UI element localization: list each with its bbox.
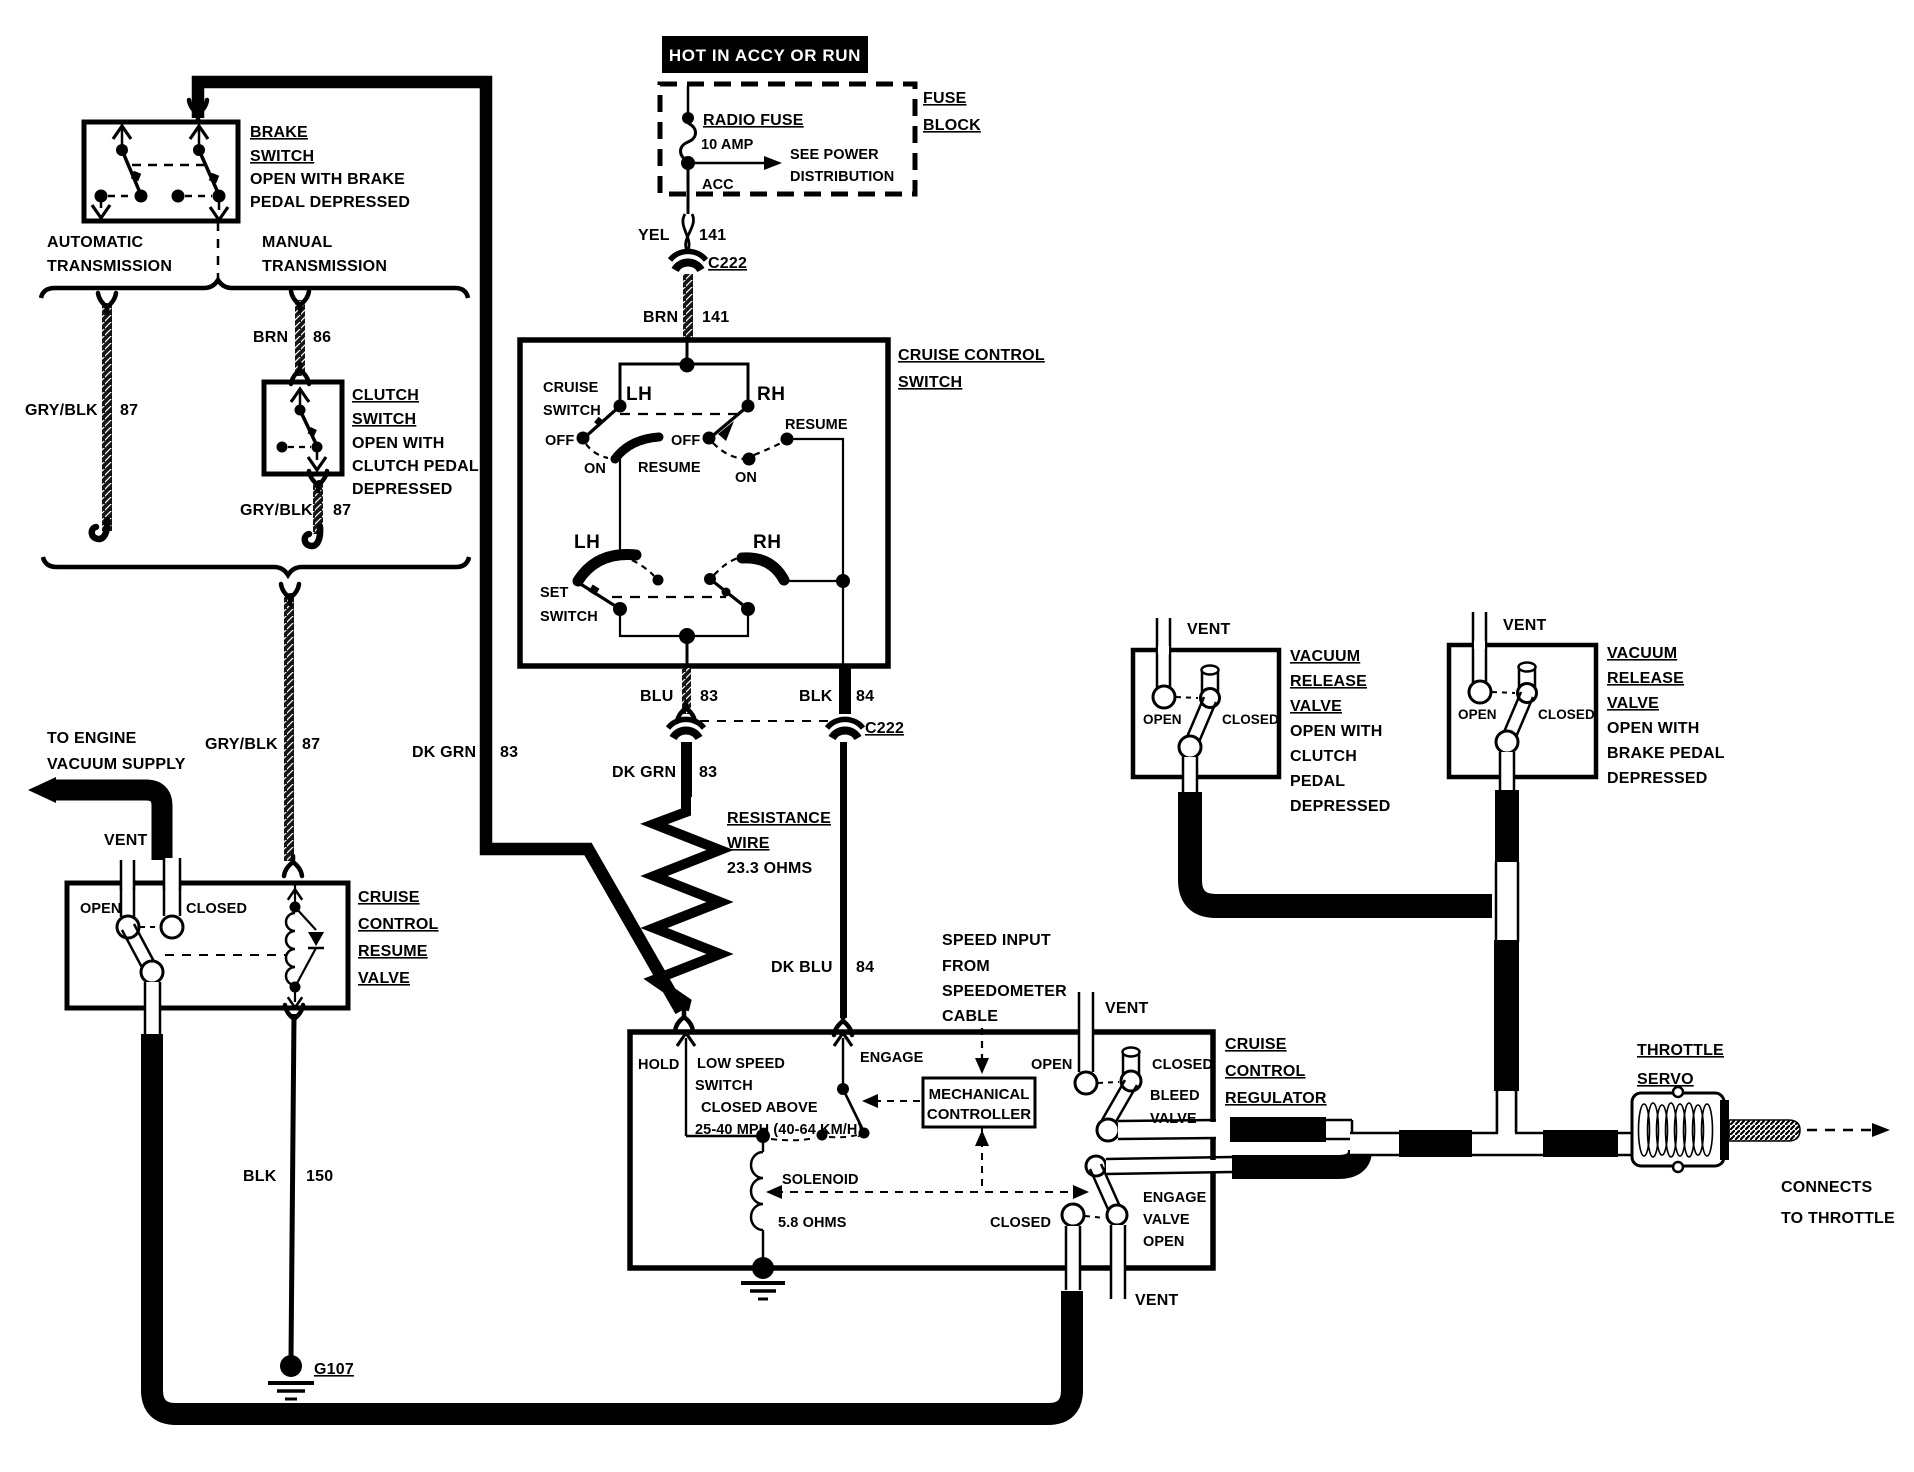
svg-text:SET: SET: [540, 585, 569, 601]
wire ACC down: [687, 163, 690, 214]
svg-text:GRY/BLK: GRY/BLK: [25, 402, 98, 419]
brake switch right pole movable contact dot: [193, 144, 205, 156]
svg-text:SPEEDOMETER: SPEEDOMETER: [942, 983, 1067, 1000]
hose right VRV black segment 2 (down to servo line): [1494, 940, 1519, 1091]
svg-text:MECHANICAL: MECHANICAL: [929, 1086, 1030, 1103]
solenoid wire: [762, 1136, 764, 1152]
svg-text:BLK: BLK: [799, 688, 833, 705]
svg-text:LOW SPEED: LOW SPEED: [697, 1056, 785, 1072]
dashed valve link: [140, 926, 160, 928]
right VRV vent tube: [1472, 612, 1475, 683]
svg-text:AUTOMATIC: AUTOMATIC: [47, 234, 144, 251]
ground (regulator): [752, 1257, 774, 1279]
tube to tee junction: [1498, 1091, 1515, 1152]
left VRV flap cylinder: [1201, 671, 1204, 692]
left VRV pivot: [1179, 736, 1201, 758]
svg-text:141: 141: [702, 309, 729, 326]
svg-text:OPEN: OPEN: [80, 901, 122, 917]
brake switch right pole dashed link: [185, 195, 212, 198]
svg-text:HOLD: HOLD: [638, 1057, 679, 1073]
LH set blade: [579, 583, 620, 609]
wire BRN 141 twisted: [683, 274, 693, 338]
mechanical controller box: [923, 1078, 1035, 1127]
svg-text:CLOSED: CLOSED: [1222, 712, 1279, 727]
wire RESUME to right rail: [787, 439, 843, 580]
brake switch right pole blade: [199, 150, 219, 195]
servo end caps: [1673, 1087, 1683, 1097]
resume valve flap: [134, 924, 158, 969]
svg-text:RELEASE: RELEASE: [1290, 673, 1367, 690]
ground G107: [280, 1355, 302, 1377]
wire DK GRN 83 below C222: [681, 742, 692, 797]
brake switch left pole blade: [122, 150, 141, 195]
node RH OFF: [703, 432, 716, 445]
svg-text:10 AMP: 10 AMP: [701, 137, 754, 153]
brake switch left pole movable contact dot: [116, 144, 128, 156]
dashed LH set to center contact: [632, 560, 654, 576]
brake switch right pole fixed contact: [172, 190, 185, 203]
engage valve seat circle: [1107, 1205, 1127, 1225]
svg-text:83: 83: [699, 764, 717, 781]
node radio fuse top: [682, 112, 694, 124]
node center contact: [817, 1130, 828, 1141]
svg-text:CONTROLLER: CONTROLLER: [927, 1106, 1031, 1123]
throttle servo body: [1632, 1093, 1724, 1166]
main vacuum hose resume valve to engage valve (bottom run): [152, 1034, 1072, 1414]
svg-text:VALVE: VALVE: [1290, 698, 1342, 715]
svg-text:RESUME: RESUME: [785, 417, 848, 433]
connector Y at brake switch top: [189, 100, 207, 120]
tube bleed run: [1326, 1119, 1352, 1122]
svg-text:VENT: VENT: [1503, 617, 1546, 634]
wire GRY/BLK 87 (manual) twisted: [313, 480, 323, 534]
wire BRN 86 twisted: [295, 300, 305, 376]
svg-text:RESUME: RESUME: [358, 943, 428, 960]
svg-text:SERVO: SERVO: [1637, 1071, 1694, 1088]
tube right VRV white section: [1497, 862, 1517, 942]
svg-text:WIRE: WIRE: [727, 835, 770, 852]
right VRV outlet tube: [1501, 752, 1514, 793]
servo spring: [1639, 1103, 1713, 1157]
svg-text:RADIO FUSE: RADIO FUSE: [703, 112, 804, 129]
dashed RH ON to RESUME: [754, 442, 783, 455]
dashed link: [1176, 697, 1198, 698]
dashed low speed switch links: [771, 1138, 815, 1140]
bleed output tube: [1118, 1122, 1216, 1138]
dashed link: [1492, 692, 1515, 693]
node LH set lower: [613, 602, 627, 616]
fuse block dashed box: [660, 84, 915, 194]
svg-text:OPEN: OPEN: [1031, 1057, 1073, 1073]
brake switch left pole arrow up: [121, 128, 124, 150]
low speed switch blade: [843, 1089, 864, 1132]
clutch switch S2 box: [264, 382, 342, 474]
svg-text:VENT: VENT: [104, 832, 147, 849]
svg-text:84: 84: [856, 688, 874, 705]
connector Y into regulator (hold): [675, 1011, 693, 1031]
svg-text:C222: C222: [865, 720, 904, 737]
servo hose black segment A: [1399, 1130, 1472, 1157]
svg-text:OPEN: OPEN: [1458, 707, 1497, 722]
svg-text:C222: C222: [708, 255, 747, 272]
hold input arrow: [685, 1038, 687, 1136]
wire feed rail: [620, 364, 748, 406]
engage valve pivot: [1086, 1156, 1106, 1176]
svg-text:REGULATOR: REGULATOR: [1225, 1090, 1327, 1107]
svg-text:ENGAGE: ENGAGE: [1143, 1190, 1207, 1206]
tee junction mask: [1498, 1092, 1515, 1147]
svg-text:OPEN: OPEN: [1143, 1234, 1185, 1250]
RH set blade: [710, 579, 748, 609]
brace upper (transmission split): [41, 280, 468, 298]
engage valve output tube: [1106, 1160, 1232, 1173]
right VRV flap cylinder: [1518, 668, 1521, 688]
dashed wire brake switch to brace: [217, 222, 220, 283]
wire RH set to right rail: [786, 580, 843, 582]
svg-text:TO ENGINE: TO ENGINE: [47, 730, 137, 747]
brace lower (transmission join): [43, 557, 469, 575]
LH set wiper thick arc: [578, 555, 636, 581]
svg-text:87: 87: [333, 502, 351, 519]
svg-text:BLK: BLK: [243, 1168, 277, 1185]
svg-text:CLOSED: CLOSED: [990, 1215, 1051, 1231]
node LH pole: [614, 400, 627, 413]
dashed solenoid to engage valve: [775, 1191, 1078, 1193]
left VRV vent tube: [1156, 618, 1159, 688]
hose left VRV down and right: [1190, 792, 1492, 906]
resume valve pivot circle: [141, 961, 163, 983]
svg-text:84: 84: [856, 959, 874, 976]
svg-text:PEDAL: PEDAL: [1290, 773, 1345, 790]
svg-text:141: 141: [699, 227, 726, 244]
svg-text:CLOSED ABOVE: CLOSED ABOVE: [701, 1100, 818, 1116]
dashed connector tie line: [700, 720, 828, 722]
svg-text:5.8 OHMS: 5.8 OHMS: [778, 1215, 847, 1231]
svg-text:BRN: BRN: [253, 329, 288, 346]
svg-text:SOLENOID: SOLENOID: [782, 1172, 859, 1188]
node low speed switch left: [756, 1129, 770, 1143]
svg-text:86: 86: [313, 329, 331, 346]
svg-text:RESUME: RESUME: [638, 460, 701, 476]
svg-text:RH: RH: [753, 532, 781, 553]
wire output down to box edge: [686, 636, 689, 666]
brake switch S1 box: [84, 122, 238, 221]
connector C222 (top): [670, 251, 706, 270]
svg-text:OPEN WITH: OPEN WITH: [352, 435, 444, 452]
svg-text:RESISTANCE: RESISTANCE: [727, 810, 831, 827]
clutch switch movable dot: [295, 405, 306, 416]
svg-text:CRUISE: CRUISE: [1225, 1036, 1287, 1053]
svg-text:DEPRESSED: DEPRESSED: [1607, 770, 1708, 787]
dashed link to relay: [165, 954, 286, 956]
svg-text:PEDAL DEPRESSED: PEDAL DEPRESSED: [250, 194, 410, 211]
svg-text:RH: RH: [757, 384, 785, 405]
svg-text:CRUISE CONTROL: CRUISE CONTROL: [898, 347, 1045, 364]
svg-text:DK GRN: DK GRN: [612, 764, 676, 781]
svg-text:BLU: BLU: [640, 688, 673, 705]
solenoid coil: [751, 1152, 763, 1230]
LH cruise blade to OFF: [584, 406, 620, 438]
dashed LH OFF to ON: [586, 444, 608, 458]
resistance wire R1 zigzag: [654, 795, 720, 1010]
cruise control regulator box: [630, 1032, 1213, 1268]
engage output hose (elbow up): [1232, 1150, 1360, 1167]
dashed RH set to wiper: [714, 558, 738, 575]
node relay bottom: [290, 982, 301, 993]
svg-text:HOT IN ACCY OR RUN: HOT IN ACCY OR RUN: [669, 46, 861, 65]
wire see power distribution arrow: [688, 162, 768, 165]
dashed RH OFF to ON: [713, 443, 745, 459]
svg-text:BLEED: BLEED: [1150, 1088, 1200, 1104]
bleed valve vent port circle: [1075, 1072, 1097, 1094]
svg-text:CLOSED: CLOSED: [1152, 1057, 1213, 1073]
clutch switch dashed link: [288, 446, 311, 448]
svg-text:SPEED INPUT: SPEED INPUT: [942, 932, 1051, 949]
svg-text:THROTTLE: THROTTLE: [1637, 1042, 1724, 1059]
svg-text:CONTROL: CONTROL: [358, 916, 439, 933]
servo rod (hatched): [1729, 1120, 1800, 1141]
node right rail join: [836, 574, 850, 588]
svg-text:SWITCH: SWITCH: [898, 374, 962, 391]
bleed valve pivot: [1097, 1119, 1119, 1141]
brake switch left pole dashed link: [108, 195, 134, 198]
wire BRN into switch: [686, 340, 689, 364]
left VRV arm: [1196, 702, 1216, 749]
svg-text:DEPRESSED: DEPRESSED: [1290, 798, 1391, 815]
svg-text:SWITCH: SWITCH: [250, 148, 314, 165]
svg-text:OPEN WITH BRAKE: OPEN WITH BRAKE: [250, 171, 405, 188]
node RH RESUME: [781, 433, 794, 446]
left VRV vent port: [1153, 686, 1175, 708]
dashed set link: [612, 596, 726, 598]
brake switch left pole arrow down: [100, 198, 103, 208]
resume valve vent port circle: [117, 916, 139, 938]
wire GRY/BLK 87 long twisted: [284, 593, 294, 861]
svg-text:VALVE: VALVE: [1150, 1111, 1197, 1127]
cruise control switch box: [520, 340, 888, 666]
wire LH pole down to set switch: [619, 458, 621, 555]
vent tube down: [1112, 1225, 1124, 1299]
node relay top: [290, 902, 301, 913]
wire BLK 84 inside box to edge: [842, 581, 844, 666]
svg-text:MANUAL: MANUAL: [262, 234, 333, 251]
svg-text:VENT: VENT: [1105, 1000, 1148, 1017]
brake switch right pole arrow down: [218, 198, 221, 210]
svg-text:ON: ON: [735, 470, 757, 486]
svg-text:VACUUM SUPPLY: VACUUM SUPPLY: [47, 756, 186, 773]
svg-text:OPEN WITH: OPEN WITH: [1290, 723, 1382, 740]
svg-text:CONNECTS: CONNECTS: [1781, 1179, 1873, 1196]
svg-text:VALVE: VALVE: [358, 970, 410, 987]
node RH set left contact: [704, 573, 716, 585]
mask tubes crossing box top: [165, 880, 179, 887]
dashed controller below with up arrow: [981, 1127, 983, 1192]
svg-text:BLOCK: BLOCK: [923, 117, 981, 134]
svg-text:VACUUM: VACUUM: [1290, 648, 1360, 665]
svg-text:BRAKE PEDAL: BRAKE PEDAL: [1607, 745, 1725, 762]
dashed link between poles: [620, 413, 740, 415]
servo back plate: [1720, 1100, 1729, 1160]
node RH pole: [742, 400, 755, 413]
node RH set lower: [741, 602, 755, 616]
LH wiper thick arc (ON-RESUME): [615, 437, 659, 459]
wire into radio fuse: [687, 86, 690, 116]
svg-text:ENGAGE: ENGAGE: [860, 1050, 924, 1066]
wire: thick feed from brake switch to regulator (top loop, DK GRN 83 run): [198, 82, 681, 1011]
vent tube into regulator top: [1080, 992, 1092, 1080]
svg-text:G107: G107: [314, 1361, 354, 1378]
node LH set center contact: [653, 575, 664, 586]
servo hose black segment B: [1543, 1130, 1618, 1157]
dashed controller to blade with arrow: [874, 1100, 921, 1102]
right VRV vent port: [1469, 681, 1491, 703]
vent tube into resume valve: [120, 860, 123, 917]
clutch switch arrow down: [316, 449, 319, 460]
RH cruise blade to OFF: [710, 406, 748, 438]
svg-text:OPEN WITH: OPEN WITH: [1607, 720, 1699, 737]
diode D1: [295, 907, 316, 987]
dashed connects-to-throttle arrow: [1807, 1129, 1875, 1131]
vacuum tube into resume valve (closed port): [164, 858, 179, 920]
svg-text:TRANSMISSION: TRANSMISSION: [47, 258, 172, 275]
svg-text:150: 150: [306, 1168, 333, 1185]
svg-text:FROM: FROM: [942, 958, 990, 975]
connector Y into regulator (engage): [834, 1015, 852, 1035]
wire BLK 84 stub: [839, 668, 851, 714]
svg-text:FUSE: FUSE: [923, 90, 967, 107]
svg-text:VALVE: VALVE: [1143, 1212, 1190, 1228]
svg-text:CLUTCH: CLUTCH: [1290, 748, 1357, 765]
svg-text:BRAKE: BRAKE: [250, 124, 308, 141]
brake switch dashed crossbar: [132, 164, 205, 167]
engage input arrow: [842, 1038, 844, 1088]
svg-text:LH: LH: [626, 384, 652, 405]
svg-text:VALVE: VALVE: [1607, 695, 1659, 712]
cruise control resume valve box: [67, 883, 348, 1008]
RH set wiper thick arc: [742, 558, 784, 580]
brake switch right pole arrow up: [198, 128, 201, 150]
dashed speed input wire: [981, 1028, 983, 1062]
hose right VRV black segment 1: [1495, 790, 1519, 862]
svg-text:ACC: ACC: [702, 177, 734, 193]
svg-text:VACUUM: VACUUM: [1607, 645, 1677, 662]
wire BLK 150: [291, 1014, 294, 1358]
left VRV outlet tube: [1184, 757, 1197, 793]
svg-text:VENT: VENT: [1135, 1292, 1178, 1309]
relay wire bottom arrow: [294, 987, 296, 1002]
wire DK BLU 84: [840, 742, 847, 1018]
clutch switch fixed contact: [277, 442, 288, 453]
node blade tip: [859, 1128, 870, 1139]
svg-text:87: 87: [302, 736, 320, 753]
clutch switch arrow up: [299, 392, 302, 409]
engage valve closed port circle: [1062, 1204, 1084, 1226]
right VRV arm: [1513, 697, 1533, 744]
vacuum release valve (brake) box: [1449, 645, 1596, 777]
svg-text:ON: ON: [584, 461, 606, 477]
relay coil L1: [286, 913, 295, 985]
node feed: [680, 358, 695, 373]
svg-text:CRUISE: CRUISE: [358, 889, 420, 906]
closed port tube down: [1067, 1226, 1079, 1290]
label HOT IN ACCY OR RUN banner: [662, 36, 868, 73]
resume valve outlet tube: [146, 982, 159, 1037]
svg-text:OFF: OFF: [545, 433, 574, 449]
svg-text:23.3 OHMS: 23.3 OHMS: [727, 860, 813, 877]
svg-text:OFF: OFF: [671, 433, 700, 449]
wire GRY/BLK 87 (automatic) twisted: [102, 303, 112, 531]
svg-text:OPEN: OPEN: [1143, 712, 1182, 727]
svg-text:83: 83: [500, 744, 518, 761]
svg-text:RELEASE: RELEASE: [1607, 670, 1684, 687]
svg-text:DK BLU: DK BLU: [771, 959, 833, 976]
bleed valve arm: [1114, 1085, 1137, 1125]
dashed bleed valve link: [1098, 1082, 1119, 1083]
svg-text:DISTRIBUTION: DISTRIBUTION: [790, 169, 894, 185]
svg-text:SEE POWER: SEE POWER: [790, 147, 879, 163]
svg-text:VENT: VENT: [1187, 621, 1230, 638]
svg-text:TO THROTTLE: TO THROTTLE: [1781, 1210, 1895, 1227]
right VRV pivot: [1496, 731, 1518, 753]
wire hold to low speed switch: [686, 1135, 760, 1137]
main servo tube: [1350, 1134, 1632, 1154]
node engage: [837, 1083, 849, 1095]
svg-text:BRN: BRN: [643, 309, 678, 326]
svg-text:SWITCH: SWITCH: [695, 1078, 753, 1094]
svg-text:LH: LH: [574, 532, 600, 553]
node set output: [679, 628, 695, 644]
connector C222 (left half): [668, 719, 704, 738]
svg-text:CLUTCH: CLUTCH: [352, 387, 419, 404]
svg-text:YEL: YEL: [638, 227, 670, 244]
vacuum release valve (clutch) box: [1133, 650, 1279, 777]
resume valve relay wire top: [294, 885, 296, 906]
svg-text:CRUISE: CRUISE: [543, 380, 599, 396]
node LH OFF: [577, 432, 590, 445]
connector C222 (right half): [827, 719, 863, 738]
svg-text:GRY/BLK: GRY/BLK: [240, 502, 313, 519]
svg-text:CONTROL: CONTROL: [1225, 1063, 1306, 1080]
svg-text:SWITCH: SWITCH: [543, 403, 601, 419]
wire BLU 83 twisted: [682, 668, 691, 714]
fuse F1 element: [681, 123, 696, 161]
wire set switch output rail: [620, 611, 748, 636]
node fuse bottom / ACC tap: [681, 156, 695, 170]
svg-text:CLUTCH PEDAL: CLUTCH PEDAL: [352, 458, 479, 475]
wire YEL 141 twisted thin: [683, 214, 694, 252]
clutch switch blade: [300, 410, 317, 446]
bleed output hose black segment: [1230, 1117, 1326, 1142]
svg-text:SWITCH: SWITCH: [352, 411, 416, 428]
svg-text:SWITCH: SWITCH: [540, 609, 598, 625]
svg-text:DK GRN: DK GRN: [412, 744, 476, 761]
svg-text:GRY/BLK: GRY/BLK: [205, 736, 278, 753]
svg-text:CLOSED: CLOSED: [186, 901, 247, 917]
svg-text:CLOSED: CLOSED: [1538, 707, 1595, 722]
svg-text:CABLE: CABLE: [942, 1008, 998, 1025]
resume valve closed port circle: [161, 916, 183, 938]
hose to engine vacuum supply with arrow: [28, 777, 56, 803]
brake switch left pole fixed contact: [95, 190, 108, 203]
solenoid to ground wire: [762, 1230, 764, 1266]
dashed engage valve link: [1085, 1216, 1105, 1218]
node RH ON: [743, 453, 756, 466]
engage valve flap: [1101, 1164, 1122, 1211]
svg-text:DEPRESSED: DEPRESSED: [352, 481, 453, 498]
bleed valve flap cylinder: [1122, 1053, 1125, 1078]
svg-text:TRANSMISSION: TRANSMISSION: [262, 258, 387, 275]
svg-text:87: 87: [120, 402, 138, 419]
